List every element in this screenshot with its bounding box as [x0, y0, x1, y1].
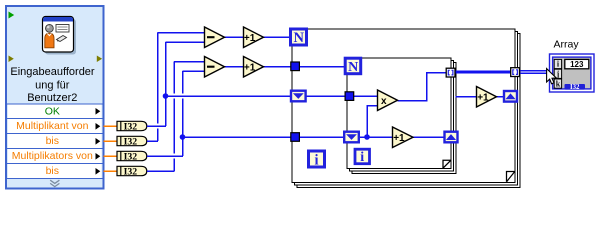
icon pencil [57, 36, 67, 42]
outer for loop back page 2 [295, 32, 518, 186]
wire inner tunnel to multiply [354, 95, 378, 97]
array element 123 [565, 59, 589, 68]
outer shift register left [291, 91, 306, 102]
between loops increment node [477, 87, 497, 108]
wire subtract2 to increment2 [225, 66, 244, 68]
svg-text:Multiplikators von: Multiplikators von [12, 150, 93, 162]
wire outer tunnel2 to inner SR [299, 136, 344, 138]
svg-text:bis: bis [46, 135, 59, 147]
svg-text:i: i [360, 150, 364, 165]
I32 conversion node 3 [117, 151, 147, 162]
express VI icon (prompt user) [43, 17, 74, 53]
svg-text:N: N [293, 30, 304, 46]
wire to subtract1 top [158, 32, 205, 34]
wire inner increment to inner SR right [413, 136, 445, 138]
mouse cursor [547, 69, 557, 84]
I32 conversion node 1 [117, 121, 147, 132]
junction dot A [163, 93, 169, 99]
expand chevron [50, 180, 59, 186]
increment node 1 [244, 27, 264, 48]
wire branch to outer shift register [166, 95, 292, 97]
svg-text:ung für: ung für [35, 79, 70, 91]
wire branch to outer tunnel2 [183, 136, 292, 138]
wire box2 horizontal [147, 140, 158, 142]
outer shift register right [504, 91, 517, 102]
wire subtract1 to increment1 [225, 36, 244, 38]
svg-text:Array: Array [554, 39, 580, 51]
wire to subtract2 bottom [183, 70, 205, 72]
inner iteration terminal i [355, 149, 370, 165]
subtract node 1 [205, 27, 225, 48]
orange wire stub 3 [104, 155, 118, 157]
inner shift register left [344, 132, 359, 143]
junction dot C [364, 134, 370, 140]
svg-text:I32: I32 [124, 152, 138, 163]
inner increment node [393, 127, 414, 148]
wire box3 horizontal [147, 155, 183, 157]
outer tunnel 2 [291, 133, 300, 142]
wire outer SR to inner tunnel [305, 95, 345, 97]
outer index tunnel [511, 68, 520, 77]
express VI Eingabeaufforderung panel body [6, 6, 104, 189]
inner for loop back page 3 [352, 63, 456, 174]
svg-text:+1: +1 [393, 133, 405, 144]
wire between increment to outer SR right [497, 96, 506, 98]
svg-text:N: N [348, 60, 358, 75]
svg-text:I32: I32 [124, 122, 138, 133]
express VI icon shadow [45, 19, 76, 55]
inner for loop back page 2 [350, 61, 454, 172]
svg-text:+1: +1 [477, 92, 489, 103]
express VI input terminal arrow (green) [9, 12, 15, 19]
I32 conversion node 4 [117, 166, 147, 177]
error-out terminal arrow (olive) [97, 56, 102, 63]
express VI rows background [8, 104, 102, 179]
junction dot B [180, 134, 186, 140]
svg-text:OK: OK [45, 105, 60, 117]
wire increment2 to outer tunnel1 [264, 66, 292, 68]
svg-text:I32: I32 [124, 137, 138, 148]
svg-text:x: x [381, 96, 387, 107]
wire box2 vertical (gap at y126) [157, 33, 159, 142]
wire increment1 to outer N [264, 36, 292, 38]
orange wire stub 4 [104, 170, 118, 172]
Array indicator icon [550, 54, 595, 92]
svg-text:+1: +1 [244, 33, 256, 44]
inner shift register right [445, 132, 458, 143]
blue wires left bundle [147, 33, 291, 172]
icon person body [45, 33, 54, 48]
inner N terminal [345, 58, 361, 75]
inner for loop corner fold [443, 160, 451, 168]
wire multiply out to index tunnel [398, 73, 447, 101]
1D array wire inner tunnel to outer tunnel [454, 70, 511, 73]
wire box3 vertical (gap at y96) [182, 71, 184, 156]
wire inner SR to junction to increment [360, 136, 393, 138]
inner index tunnel [446, 68, 455, 77]
outer iteration terminal i [309, 151, 325, 168]
wire box1 vertical [165, 42, 167, 126]
subtract node 2 [205, 57, 225, 78]
orange wire stub 1 [104, 126, 118, 171]
increment node 2 [244, 57, 264, 78]
inner tunnel [345, 92, 354, 101]
error-in terminal arrow (olive) [9, 56, 14, 63]
outer for loop frame [292, 29, 515, 183]
svg-text:i: i [314, 152, 318, 168]
multiply node [378, 90, 398, 111]
array I32 type band [565, 84, 586, 90]
svg-text:Multiplikant von: Multiplikant von [16, 120, 89, 132]
wire junction up to multiply bottom input [367, 106, 378, 138]
outer for loop corner fold [507, 172, 515, 182]
svg-text:bis: bis [46, 165, 59, 177]
svg-text:123: 123 [570, 60, 584, 69]
wires inside outer loop [299, 67, 505, 138]
wire box4 vertical (gaps at y156 and y96) [173, 62, 175, 172]
svg-text:I32: I32 [124, 167, 138, 178]
icon person head [46, 24, 54, 32]
icon list form [56, 25, 69, 33]
wire inner loop to between increment [456, 96, 477, 98]
wire to subtract1 bottom [166, 41, 205, 43]
wire outer tunnel1 to inner N [299, 66, 345, 68]
orange wire stub 2 [104, 140, 118, 142]
array index boxes i j k [554, 59, 561, 88]
outer for loop back page 3 [297, 34, 520, 188]
I32 conversion node 2 [117, 136, 147, 147]
express VI name text [10, 66, 95, 104]
svg-text:Benutzer2: Benutzer2 [27, 92, 77, 104]
2D array wire outer tunnel to Array indicator [519, 71, 549, 73]
outer tunnel 1 [291, 62, 300, 71]
svg-text:+1: +1 [244, 62, 256, 73]
wire to subtract2 top [174, 61, 205, 63]
svg-text:Eingabeaufforder: Eingabeaufforder [10, 66, 95, 78]
express VI row divider lines [7, 104, 103, 179]
wire box4 horizontal [147, 170, 175, 172]
svg-text:I32: I32 [570, 84, 580, 91]
svg-text:k: k [556, 79, 561, 88]
inner for loop frame [347, 58, 451, 169]
outer N terminal [291, 29, 307, 46]
wire box1 horizontal [147, 125, 166, 127]
row output arrows [96, 108, 101, 175]
